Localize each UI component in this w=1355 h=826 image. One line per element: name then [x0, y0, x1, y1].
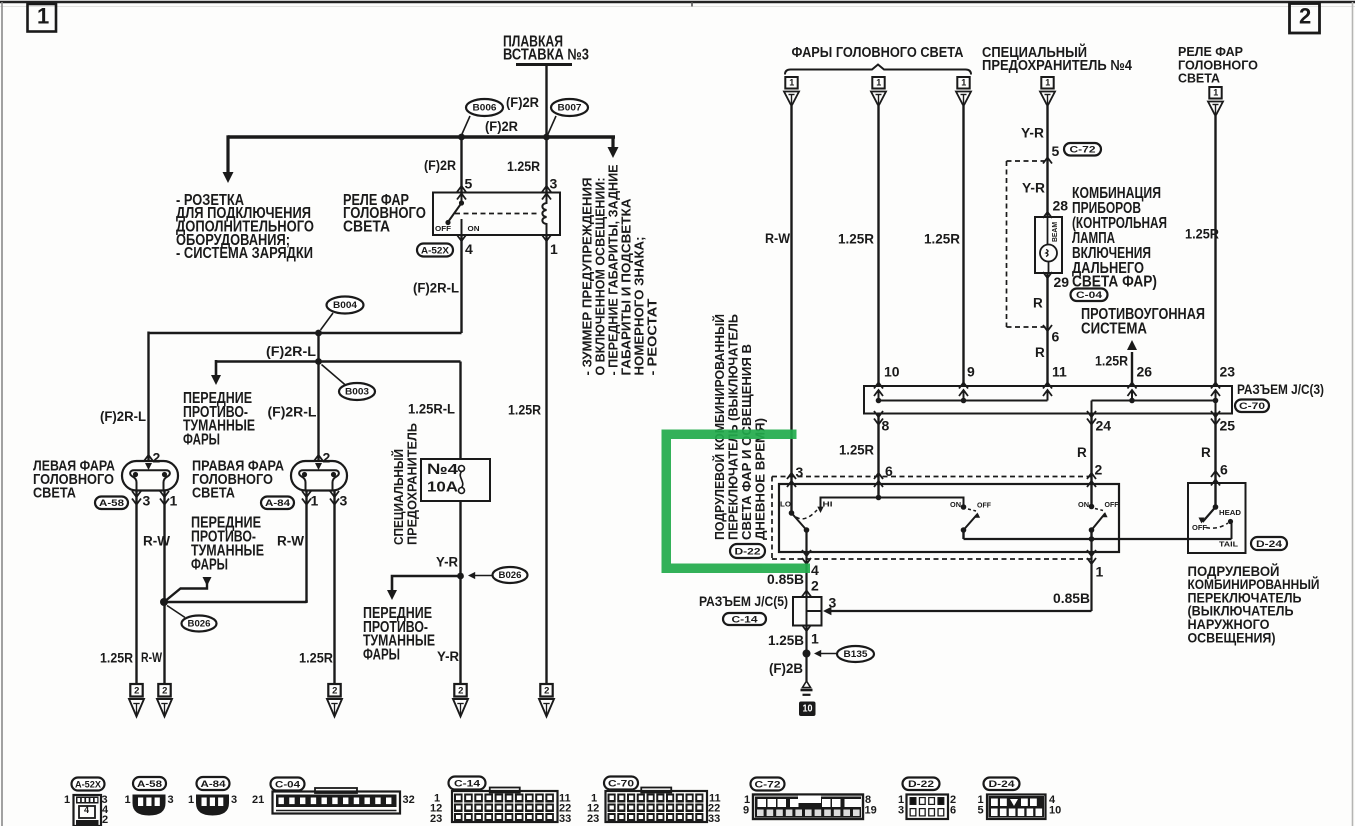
fog switch stub to tail bus: [962, 530, 964, 539]
dimmer switch LO contact: [791, 484, 793, 513]
svg-text:3: 3: [550, 175, 558, 191]
svg-text:ФАРЫ: ФАРЫ: [191, 556, 228, 573]
wire from fuse down to Y-R node: [459, 501, 461, 576]
fuse No.4 10A box: [421, 459, 490, 501]
fog switch ON contact: [961, 504, 967, 510]
svg-text:2: 2: [1299, 3, 1311, 28]
svg-text:(F)2R: (F)2R: [424, 158, 456, 173]
svg-text:11: 11: [1052, 363, 1067, 379]
page top border line: [0, 1, 1355, 4]
svg-text:A-52X: A-52X: [75, 779, 102, 790]
junction connector J/C(3) box C-70: [864, 386, 1232, 414]
terminal to sheet2 x164: [158, 684, 170, 697]
main switch dashed: [1095, 509, 1103, 511]
connector oval B004: [327, 297, 364, 314]
JC3 top pin chevrons: [874, 383, 883, 389]
svg-text:1.25R-L: 1.25R-L: [408, 401, 455, 416]
D22 bottom exit pin4: [805, 530, 807, 567]
svg-text:9: 9: [967, 363, 975, 379]
D24 lever: [1203, 507, 1216, 522]
svg-text:ВСТАВКА №3: ВСТАВКА №3: [503, 47, 589, 64]
junction node B003: [315, 358, 322, 365]
branch arrow down at right to buzzer note: [611, 137, 614, 151]
svg-text:B026: B026: [499, 570, 522, 580]
svg-text:Y-R: Y-R: [1022, 181, 1045, 196]
connector label oval A-84 bottom: [197, 777, 230, 790]
main light switch ON contact: [1089, 504, 1095, 510]
relay coil: [542, 193, 546, 234]
relay pin 3 entry chevron: [542, 186, 551, 192]
svg-text:OFF: OFF: [977, 500, 991, 509]
svg-text:2: 2: [458, 685, 463, 696]
junction wire6 on interconnect: [876, 495, 882, 501]
connector label oval D-24 bottom: [984, 778, 1020, 791]
svg-text:ПРЕДОХРАНИТЕЛЬ: ПРЕДОХРАНИТЕЛЬ: [405, 423, 420, 545]
wire 1.25R no2 from terminal to JC3 pin10: [877, 106, 879, 386]
column switch D-22 dashed box: [772, 476, 1094, 478]
svg-text:C-14: C-14: [454, 778, 481, 789]
svg-text:D-24: D-24: [989, 779, 1016, 790]
fog switch dashed: [968, 509, 976, 511]
svg-text:OFF: OFF: [435, 224, 451, 233]
svg-text:C-72: C-72: [755, 779, 781, 790]
relay pin 4 exit chevron: [457, 235, 466, 241]
wire 1.25R no3 from terminal to JC3 pin9: [962, 106, 964, 386]
svg-text:C-70: C-70: [1239, 401, 1265, 412]
connector label oval D-22 bottom: [903, 778, 940, 791]
connector drawing C-04: [273, 792, 401, 814]
terminal to sheet2 x546: [540, 684, 552, 697]
wire from node to headlamp relay pin 3: [545, 137, 547, 192]
svg-text:ОСВЕЩЕНИЯ): ОСВЕЩЕНИЯ): [1188, 629, 1276, 645]
JC3 internal bus right: [1092, 400, 1217, 402]
svg-text:R-W: R-W: [765, 231, 790, 246]
junction node B004: [315, 330, 322, 337]
svg-text:HI: HI: [823, 499, 833, 508]
svg-text:6: 6: [1220, 461, 1228, 477]
ground junction node: [803, 650, 811, 658]
right lamp pin3 wire to terminal: [333, 491, 335, 685]
connector label oval A-84: [261, 497, 294, 510]
headlamp relay A-52X box: [433, 193, 560, 236]
svg-text:3: 3: [143, 492, 151, 508]
dimmer dashed arc: [796, 510, 817, 519]
junction node B007: [543, 134, 550, 141]
brace over headlamp wires: [785, 65, 971, 75]
wire Y-R down to terminal: [459, 576, 461, 684]
svg-text:28: 28: [1053, 197, 1069, 213]
pointer line B026 to junction: [167, 606, 185, 618]
svg-text:СВЕТА: СВЕТА: [1178, 71, 1221, 86]
connector drawing C-72: [753, 795, 863, 820]
wire relay pin4 down: [460, 236, 462, 333]
left lamp pin3 wire to terminal: [135, 491, 137, 685]
terminal from sheet1 x963: [957, 77, 969, 89]
svg-text:(F)2B: (F)2B: [769, 661, 803, 676]
svg-text:(F)2R-L: (F)2R-L: [268, 404, 317, 419]
junction connector J/C(5) box C-14: [793, 597, 822, 626]
pointer line from B006 to junction: [462, 116, 470, 134]
lamp circle: [1047, 217, 1049, 245]
relay label oval A-52X: [417, 244, 453, 257]
wire Y-R fuse to cluster: [1046, 106, 1048, 217]
svg-text:1.25R: 1.25R: [838, 230, 874, 246]
wire from relay pin1 down to terminal: [545, 236, 547, 684]
wire B down from junction: [317, 333, 319, 461]
svg-text:СВЕТА ФАР): СВЕТА ФАР): [1072, 273, 1157, 290]
terminal from sheet1 x1215: [1209, 87, 1221, 99]
svg-text:26: 26: [1137, 363, 1153, 379]
svg-text:1.25R: 1.25R: [100, 649, 133, 665]
high beam lamp box: [1043, 212, 1052, 218]
svg-text:ON: ON: [950, 500, 961, 509]
svg-text:ГАБАРИТЫ И ПОДСВЕТКА: ГАБАРИТЫ И ПОДСВЕТКА: [620, 199, 634, 376]
svg-text:HEAD: HEAD: [1219, 508, 1242, 517]
main feed wire horizontal: [228, 135, 615, 138]
svg-text:B007: B007: [558, 103, 582, 113]
connector oval B026 right: [493, 567, 528, 583]
svg-text:LO: LO: [780, 499, 791, 508]
svg-text:19: 19: [865, 805, 877, 817]
svg-text:3: 3: [168, 794, 174, 806]
JC3 bottom pin chevrons: [874, 411, 883, 417]
svg-text:4: 4: [811, 562, 819, 578]
svg-text:1.25R: 1.25R: [508, 401, 541, 417]
svg-text:C-72: C-72: [1070, 145, 1096, 156]
JC3 internal bus left: [878, 390, 880, 401]
svg-text:РАЗЪЕМ J/C(3): РАЗЪЕМ J/C(3): [1237, 381, 1324, 397]
svg-text:R-W: R-W: [277, 533, 304, 548]
svg-text:2: 2: [162, 685, 167, 696]
connector label oval C-04: [1071, 289, 1108, 302]
arrow from B026 to node: [470, 575, 492, 577]
svg-text:1.25R: 1.25R: [299, 649, 333, 665]
chevron at dashed top: [1043, 158, 1052, 164]
chevron at dashed bottom: [1043, 325, 1052, 331]
connector label oval C-14 small: [723, 613, 766, 625]
svg-text:21: 21: [252, 794, 264, 806]
junction node B026 left: [160, 598, 168, 606]
fog branch from Y-R node: [392, 576, 461, 593]
chevron below lamp box: [1043, 272, 1052, 278]
svg-text:3: 3: [898, 805, 904, 817]
svg-text:C-14: C-14: [732, 614, 759, 625]
svg-text:D-24: D-24: [1256, 539, 1283, 550]
sheet number box 2: [1290, 4, 1320, 34]
svg-text:B004: B004: [333, 300, 357, 310]
fog lamp branch arrow: [215, 360, 218, 378]
svg-text:Y-R: Y-R: [437, 649, 459, 664]
terminal from sheet1 x878: [872, 77, 884, 89]
tail bus wire to D-24: [964, 538, 1232, 540]
fog switch lever: [964, 514, 978, 530]
svg-text:СИСТЕМА: СИСТЕМА: [1081, 320, 1147, 337]
svg-text:C-04: C-04: [1076, 290, 1103, 301]
svg-text:1: 1: [1096, 563, 1104, 579]
pointer line from B003 to junction: [322, 365, 347, 386]
cluster dashed box: [1007, 160, 1048, 162]
svg-text:R: R: [1201, 445, 1211, 460]
wire JC3 pin8 to D-22 pin6: [877, 413, 879, 498]
wire from fusible link down to node B007: [545, 65, 547, 138]
dimmer lever: [792, 513, 807, 530]
connector drawing D-22: [907, 795, 949, 820]
svg-text:A-58: A-58: [99, 498, 124, 509]
svg-text:B003: B003: [345, 387, 369, 397]
relay internal dashed link: [455, 213, 538, 215]
headlamp symbol left A-58: [122, 461, 178, 491]
Y-R node under fuse: [457, 573, 464, 580]
svg-text:0.85B: 0.85B: [1053, 590, 1090, 606]
svg-text:- СИСТЕМА ЗАРЯДКИ: - СИСТЕМА ЗАРЯДКИ: [176, 245, 313, 262]
anti-theft branch arrow up: [1131, 352, 1133, 386]
connector label oval C-70: [1235, 400, 1269, 413]
svg-text:1.25R: 1.25R: [839, 442, 874, 458]
wire JC3 pin24 to D-22 pin2: [1090, 413, 1092, 507]
svg-text:R: R: [1035, 345, 1045, 360]
svg-text:B026: B026: [188, 619, 211, 629]
HEAD contact to tail bus: [1228, 519, 1233, 524]
connector label oval A-58 bottom: [133, 777, 166, 790]
svg-text:A-52X: A-52X: [421, 245, 450, 256]
svg-text:A-84: A-84: [265, 498, 291, 509]
svg-text:A-84: A-84: [201, 779, 227, 790]
connector label oval C-04 bottom: [271, 778, 305, 791]
connector drawing A-52X: [74, 795, 102, 826]
arrow from B135 to node: [816, 653, 837, 655]
svg-text:СВЕТА: СВЕТА: [33, 485, 76, 502]
horizontal wire C to fuse: [216, 360, 461, 362]
wire from D22 pin1 to JC5 pin3: [1090, 567, 1092, 611]
left headlamp pin2 wire down: [147, 332, 149, 462]
connector oval B007: [551, 99, 588, 116]
headlamp symbol right A-84: [291, 461, 347, 491]
svg-text:23: 23: [1220, 363, 1236, 379]
svg-text:ФАРЫ: ФАРЫ: [363, 646, 400, 663]
svg-text:- ПЕРЕДНИЕ ГАБАРИТЫ, ЗАДНИЕ: - ПЕРЕДНИЕ ГАБАРИТЫ, ЗАДНИЕ: [607, 165, 621, 376]
wire R-W from terminal to D-22 pin3: [790, 106, 792, 513]
right lamp pin1 wire down: [305, 491, 307, 603]
connector oval B026: [182, 616, 217, 632]
connector oval B003: [339, 383, 375, 400]
D22 pin2 chevrons: [1087, 473, 1096, 479]
svg-text:О ВКЛЮЧЕННОМ ОСВЕЩЕНИИ:: О ВКЛЮЧЕННОМ ОСВЕЩЕНИИ:: [594, 178, 608, 376]
svg-text:10: 10: [884, 363, 900, 379]
svg-text:2: 2: [332, 685, 337, 696]
svg-text:5: 5: [465, 175, 473, 191]
svg-text:РАЗЪЕМ J/C(5): РАЗЪЕМ J/C(5): [699, 593, 788, 609]
terminal to sheet2 x460: [454, 684, 466, 697]
svg-text:33: 33: [559, 813, 571, 825]
svg-text:R-W: R-W: [141, 650, 162, 665]
svg-text:1: 1: [125, 794, 131, 806]
connector drawing D-24: [987, 795, 1046, 820]
relay pin 1 exit chevron: [542, 235, 551, 241]
D24 dashed arc: [1206, 523, 1228, 528]
svg-text:OFF: OFF: [1105, 500, 1119, 509]
svg-text:1: 1: [789, 78, 794, 88]
svg-text:3: 3: [231, 794, 237, 806]
svg-text:5: 5: [1052, 143, 1060, 159]
wire from node to headlamp relay pin 5: [460, 137, 462, 192]
svg-text:1: 1: [961, 78, 966, 88]
svg-text:(F)2R-L: (F)2R-L: [266, 344, 316, 359]
svg-text:4: 4: [465, 241, 473, 257]
svg-text:1: 1: [37, 3, 49, 28]
svg-text:D-22: D-22: [908, 779, 934, 790]
terminal from sheet1 x792: [785, 77, 797, 89]
D22 pin3 chevrons: [787, 473, 796, 479]
fog lamp stub arrow: [164, 583, 207, 602]
svg-text:1: 1: [170, 492, 178, 508]
connector oval B006: [466, 99, 503, 116]
svg-text:ПОДРУЛЕВОЙ КОМБИНИРОВАННЫЙ: ПОДРУЛЕВОЙ КОМБИНИРОВАННЫЙ: [712, 314, 727, 540]
svg-text:(F)2R: (F)2R: [485, 119, 518, 134]
column switch D-22 inner box: [779, 484, 1119, 552]
label oval D-24: [1251, 537, 1287, 550]
svg-text:6: 6: [950, 805, 956, 817]
svg-text:- РЕОСТАТ: - РЕОСТАТ: [646, 298, 660, 375]
wire D22 pin4 down to JC5: [805, 567, 807, 597]
svg-text:D-22: D-22: [735, 546, 761, 557]
connector label oval C-14 bottom: [449, 777, 486, 790]
connector drawing C-14: [452, 791, 558, 822]
green highlight bracket: [662, 430, 811, 574]
svg-text:9: 9: [743, 805, 749, 817]
svg-text:СВЕТА: СВЕТА: [192, 485, 235, 502]
JC5 exit chevron: [802, 625, 811, 631]
svg-text:СВЕТА ФАР И ОСВЕЩЕНИЯ В: СВЕТА ФАР И ОСВЕЩЕНИЯ В: [740, 344, 754, 540]
connector label oval C-70 bottom: [604, 777, 638, 790]
junction node B006: [458, 134, 465, 141]
svg-text:4: 4: [84, 805, 89, 815]
svg-text:(F)2R-L: (F)2R-L: [413, 280, 459, 295]
main switch lever: [1092, 514, 1106, 531]
svg-text:C-70: C-70: [608, 778, 634, 789]
svg-text:1: 1: [188, 794, 194, 806]
svg-text:1.25R: 1.25R: [507, 158, 540, 174]
svg-text:ON: ON: [468, 224, 480, 233]
svg-text:2: 2: [544, 685, 549, 696]
connector label oval C-72 bottom: [751, 778, 785, 791]
svg-text:33: 33: [708, 813, 720, 825]
ground symbol: [803, 681, 811, 688]
terminal to sheet2 x334: [328, 684, 340, 697]
svg-text:0.85B: 0.85B: [767, 571, 804, 587]
svg-text:29: 29: [1054, 274, 1070, 290]
svg-text:C-04: C-04: [275, 779, 301, 790]
svg-text:ФАРЫ ГОЛОВНОГО СВЕТА: ФАРЫ ГОЛОВНОГО СВЕТА: [792, 45, 964, 61]
svg-text:1.25R: 1.25R: [1095, 352, 1128, 368]
lighting switch D-24 box: [1188, 483, 1246, 553]
svg-text:3: 3: [340, 492, 348, 508]
sheet number box 1: [28, 4, 57, 32]
terminal from sheet1 x1047: [1041, 77, 1053, 89]
left lamp pin1 wire to terminal: [163, 491, 165, 685]
svg-text:2: 2: [1095, 461, 1103, 477]
wire 1.25R relay to JC3 pin23: [1214, 116, 1216, 386]
svg-text:(F)2R-L: (F)2R-L: [100, 409, 146, 424]
connector oval B135: [837, 646, 874, 662]
svg-text:TAIL: TAIL: [1219, 539, 1238, 548]
svg-text:1.25R: 1.25R: [1185, 225, 1219, 241]
svg-text:10A: 10A: [427, 478, 458, 495]
D22 bottom exit pin1: [1090, 539, 1092, 567]
svg-text:23: 23: [587, 813, 599, 825]
svg-text:B135: B135: [844, 649, 868, 659]
svg-text:НОМЕРНОГО ЗНАКА;: НОМЕРНОГО ЗНАКА;: [633, 237, 647, 376]
svg-text:1: 1: [64, 794, 70, 806]
page left border line: [1, 2, 3, 826]
connector drawing C-70: [606, 791, 708, 822]
D22 pin6 chevrons: [874, 473, 883, 479]
right headlamp pin2 chevrons: [314, 455, 323, 461]
svg-text:1: 1: [876, 78, 881, 88]
connector label oval C-72: [1064, 143, 1101, 156]
page right border line: [1352, 2, 1354, 826]
pointer line from B004 to junction: [321, 313, 334, 330]
svg-text:5: 5: [978, 805, 984, 817]
relay switch contact: [461, 193, 463, 202]
svg-text:2: 2: [134, 685, 139, 696]
svg-text:- ЗУММЕР ПРЕДУПРЕЖДЕНИЯ: - ЗУММЕР ПРЕДУПРЕЖДЕНИЯ: [581, 177, 595, 375]
svg-text:2: 2: [102, 814, 108, 826]
svg-text:1.25R: 1.25R: [924, 230, 960, 246]
svg-text:2: 2: [153, 449, 161, 465]
right lamp bottom chevrons: [302, 491, 311, 497]
svg-text:1: 1: [1213, 88, 1218, 98]
svg-text:24: 24: [1096, 417, 1112, 433]
relay pin 5 entry chevron: [457, 186, 466, 192]
svg-text:1: 1: [811, 630, 819, 646]
svg-text:8: 8: [882, 417, 890, 433]
svg-text:(F)2R: (F)2R: [506, 95, 539, 110]
svg-text:№4: №4: [427, 461, 459, 478]
connector label oval A-52X bottom: [72, 778, 105, 791]
D24 pin6 chevrons: [1211, 471, 1220, 477]
svg-text:1: 1: [550, 241, 558, 257]
label oval D-22: [730, 544, 765, 558]
connector drawing A-84: [196, 795, 229, 816]
D24 wire in: [1215, 483, 1217, 507]
svg-text:32: 32: [403, 794, 415, 806]
svg-text:23: 23: [430, 813, 442, 825]
svg-text:A-58: A-58: [137, 779, 162, 790]
left lamp bottom chevrons: [132, 491, 141, 497]
ground code box 10: [799, 702, 816, 717]
horizontal wire A to left headlamp: [149, 332, 462, 334]
pointer line from B007 to junction: [548, 116, 556, 134]
svg-text:ON: ON: [1078, 500, 1089, 509]
svg-text:OFF: OFF: [1192, 523, 1207, 532]
connector drawing A-58: [133, 795, 166, 816]
svg-text:ФАРЫ: ФАРЫ: [183, 431, 220, 448]
svg-text:R: R: [1077, 445, 1087, 460]
svg-text:Y-R: Y-R: [1021, 125, 1044, 140]
wire JC3 pin25 to D-24 pin6: [1214, 413, 1216, 507]
svg-text:B006: B006: [473, 103, 497, 113]
wire JC5 to ground: [805, 626, 807, 682]
svg-text:СВЕТА: СВЕТА: [343, 218, 390, 235]
HI contact with interconnect to fog switch: [821, 498, 964, 509]
svg-text:25: 25: [1220, 417, 1236, 433]
top center tick: [691, 2, 693, 7]
svg-text:1.25B: 1.25B: [768, 632, 804, 648]
fuse wire down: [459, 362, 461, 460]
svg-text:R-W: R-W: [143, 533, 170, 548]
terminal to sheet2 x136: [130, 684, 142, 697]
svg-text:6: 6: [1052, 328, 1060, 344]
